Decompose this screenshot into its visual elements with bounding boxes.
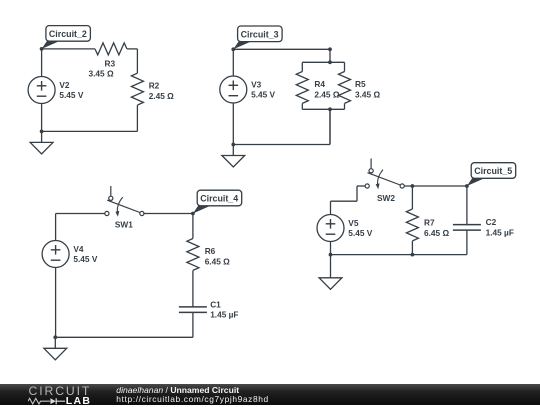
- svg-text:2.45 Ω: 2.45 Ω: [149, 91, 174, 101]
- svg-text:Circuit_2: Circuit_2: [49, 29, 87, 39]
- svg-text:5.45 V: 5.45 V: [251, 90, 275, 100]
- svg-text:C1: C1: [210, 299, 221, 309]
- svg-text:R6: R6: [205, 246, 216, 256]
- svg-text:2.45 Ω: 2.45 Ω: [314, 90, 339, 100]
- svg-text:Circuit_3: Circuit_3: [241, 29, 279, 39]
- svg-text:3.45 Ω: 3.45 Ω: [89, 69, 114, 79]
- svg-text:5.45 V: 5.45 V: [59, 90, 83, 100]
- svg-text:Circuit_4: Circuit_4: [200, 194, 238, 204]
- svg-text:5.45 V: 5.45 V: [73, 254, 97, 264]
- svg-text:R2: R2: [149, 81, 160, 91]
- svg-text:R5: R5: [355, 79, 366, 89]
- svg-text:SW2: SW2: [377, 193, 395, 203]
- svg-text:V2: V2: [59, 80, 70, 90]
- svg-text:3.45 Ω: 3.45 Ω: [355, 90, 380, 100]
- svg-text:1.45 µF: 1.45 µF: [486, 227, 514, 237]
- svg-text:R7: R7: [424, 218, 435, 228]
- svg-text:V5: V5: [348, 218, 359, 228]
- svg-text:V3: V3: [251, 79, 262, 89]
- svg-text:R4: R4: [314, 79, 325, 89]
- svg-text:V4: V4: [73, 244, 84, 254]
- svg-text:C2: C2: [486, 217, 497, 227]
- svg-text:1.45 µF: 1.45 µF: [210, 310, 238, 320]
- svg-text:5.45 V: 5.45 V: [348, 228, 372, 238]
- svg-text:Circuit_5: Circuit_5: [474, 166, 512, 176]
- svg-text:SW1: SW1: [115, 220, 133, 230]
- svg-text:6.45 Ω: 6.45 Ω: [205, 256, 230, 266]
- svg-text:6.45 Ω: 6.45 Ω: [424, 228, 449, 238]
- svg-text:R3: R3: [105, 59, 116, 69]
